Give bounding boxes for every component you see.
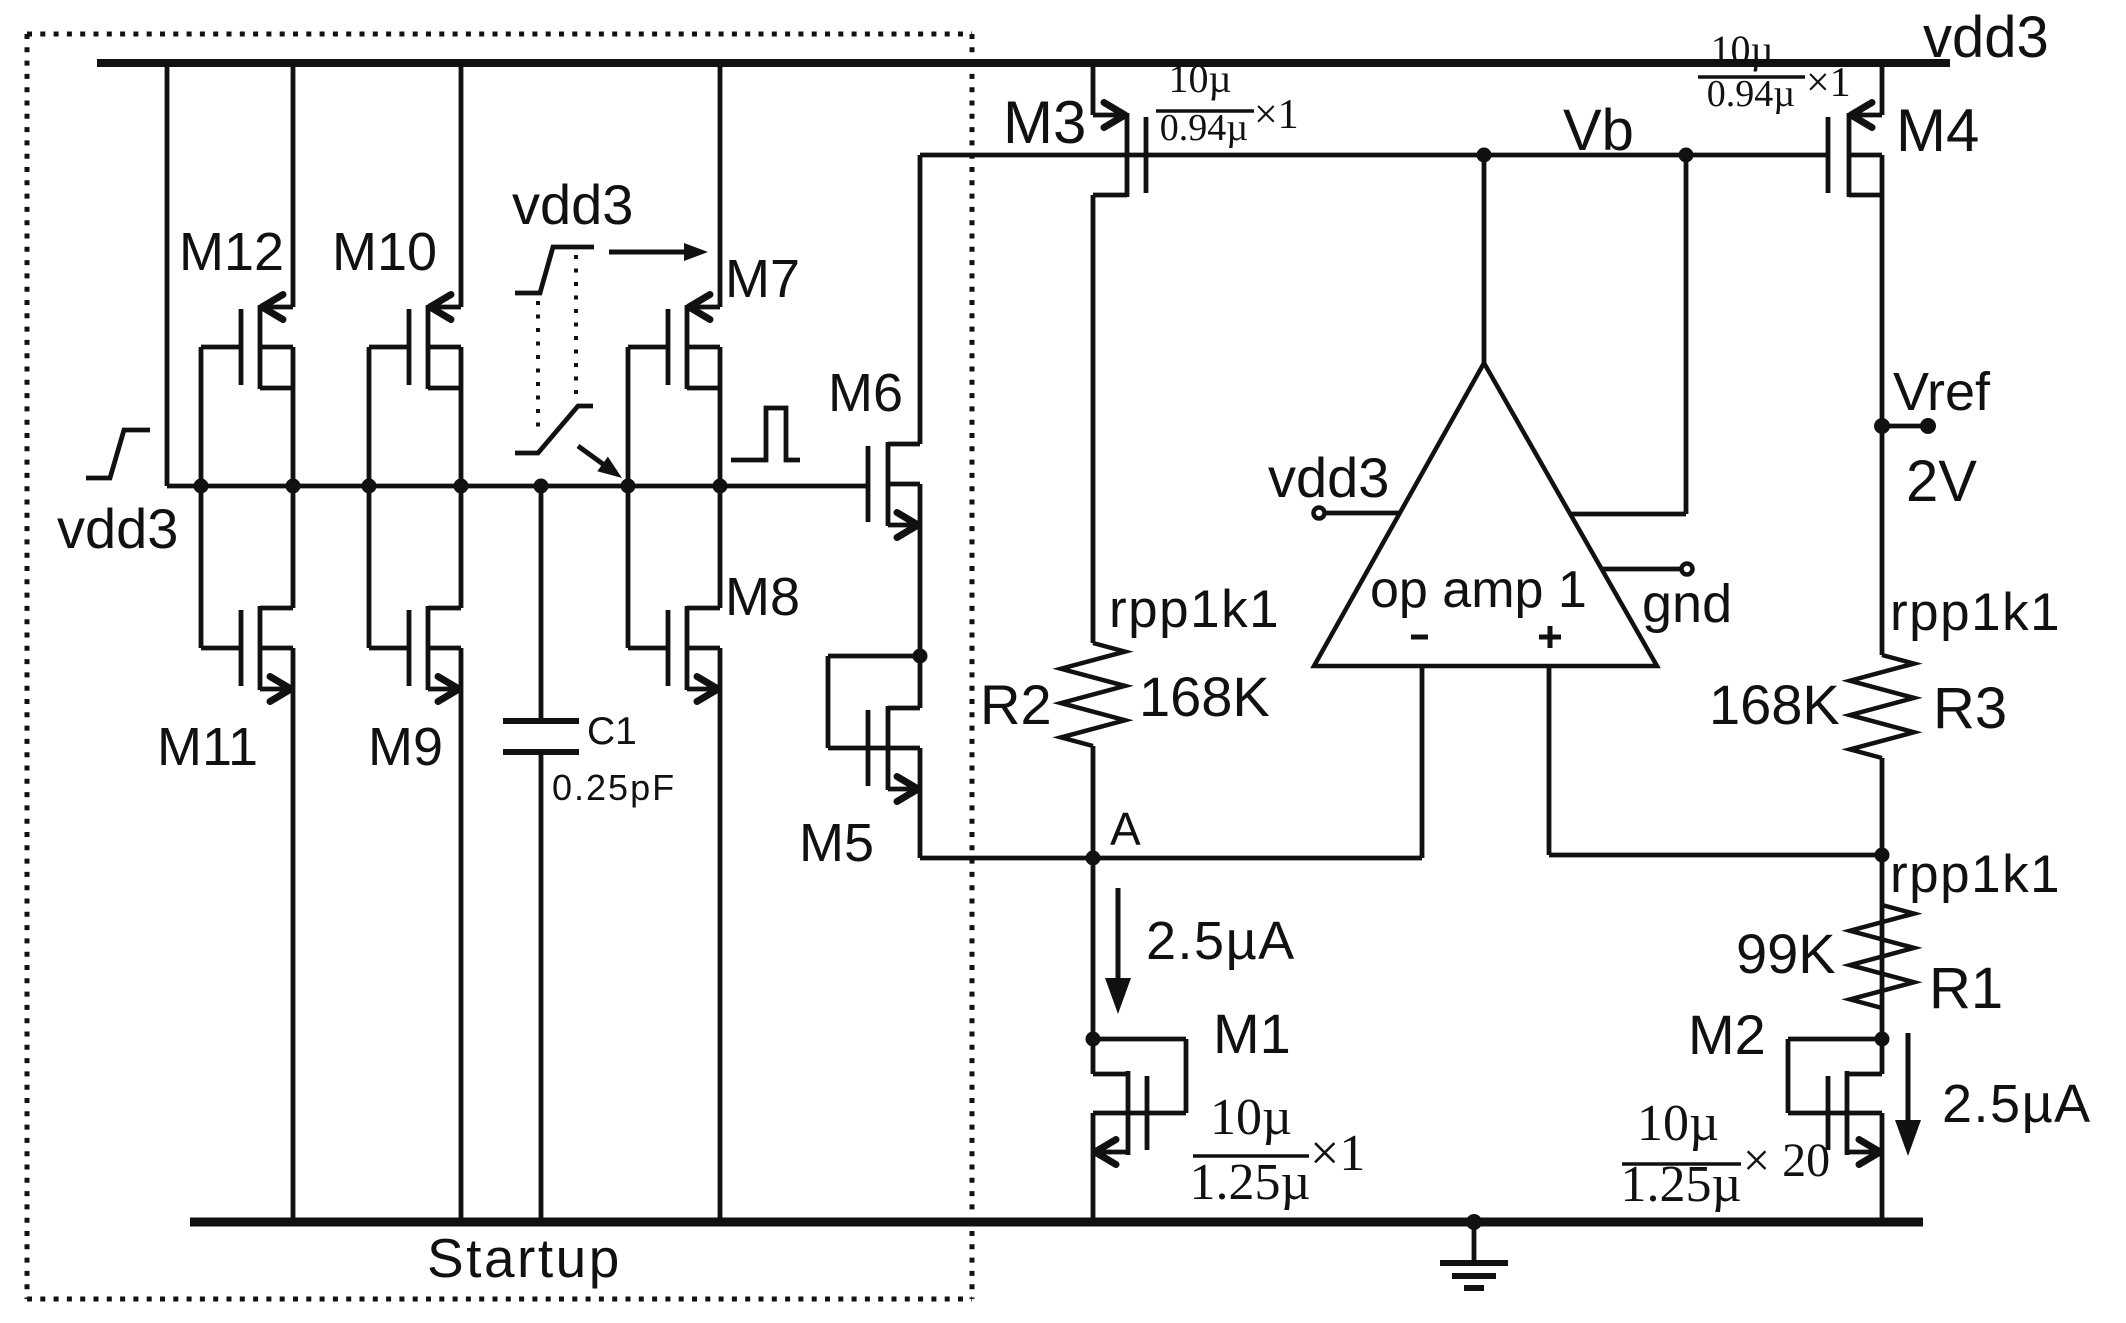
svg-text:R2: R2 bbox=[980, 673, 1052, 736]
svg-text:10µ: 10µ bbox=[1710, 27, 1773, 72]
svg-text:×1: ×1 bbox=[1310, 1125, 1365, 1182]
svg-text:M1: M1 bbox=[1213, 1002, 1291, 1065]
svg-text:1.25µ: 1.25µ bbox=[1190, 1154, 1311, 1211]
svg-text:gnd: gnd bbox=[1642, 574, 1732, 634]
svg-text:Vref: Vref bbox=[1893, 362, 1991, 422]
svg-text:rpp1k1: rpp1k1 bbox=[1109, 580, 1280, 639]
svg-text:vdd3: vdd3 bbox=[1923, 5, 2049, 70]
svg-text:2.5µA: 2.5µA bbox=[1146, 911, 1296, 971]
svg-text:C1: C1 bbox=[587, 710, 637, 753]
svg-text:vdd3: vdd3 bbox=[1268, 446, 1389, 509]
svg-text:rpp1k1: rpp1k1 bbox=[1890, 583, 2061, 642]
svg-text:M8: M8 bbox=[725, 567, 800, 627]
svg-text:M11: M11 bbox=[157, 717, 258, 777]
svg-text:M7: M7 bbox=[725, 249, 800, 309]
svg-text:99K: 99K bbox=[1736, 922, 1836, 985]
svg-text:M5: M5 bbox=[799, 813, 874, 873]
svg-text:168K: 168K bbox=[1709, 673, 1840, 736]
svg-text:× 20: × 20 bbox=[1743, 1134, 1830, 1187]
svg-text:M3: M3 bbox=[1003, 89, 1086, 156]
svg-text:10µ: 10µ bbox=[1168, 56, 1231, 101]
svg-text:M2: M2 bbox=[1688, 1003, 1766, 1066]
svg-text:M4: M4 bbox=[1896, 97, 1979, 164]
svg-text:2.5µA: 2.5µA bbox=[1942, 1074, 2092, 1134]
svg-text:10µ: 10µ bbox=[1210, 1089, 1292, 1146]
svg-text:0.25pF: 0.25pF bbox=[552, 767, 676, 808]
svg-text:×1: ×1 bbox=[1254, 92, 1299, 138]
svg-text:2V: 2V bbox=[1906, 449, 1977, 514]
svg-text:Vb: Vb bbox=[1563, 98, 1634, 163]
svg-text:R1: R1 bbox=[1929, 956, 2003, 1021]
svg-text:M10: M10 bbox=[332, 222, 437, 282]
svg-text:op amp 1: op amp 1 bbox=[1370, 561, 1587, 619]
svg-text:R3: R3 bbox=[1933, 676, 2007, 741]
svg-text:A: A bbox=[1110, 803, 1141, 855]
svg-text:vdd3: vdd3 bbox=[57, 497, 178, 560]
svg-text:Startup: Startup bbox=[427, 1227, 622, 1289]
svg-text:M6: M6 bbox=[828, 363, 903, 423]
svg-text:0.94µ: 0.94µ bbox=[1707, 73, 1795, 115]
svg-text:M9: M9 bbox=[368, 717, 443, 777]
svg-text:M12: M12 bbox=[179, 222, 284, 282]
svg-text:10µ: 10µ bbox=[1637, 1095, 1719, 1152]
svg-text:×1: ×1 bbox=[1806, 60, 1851, 106]
svg-text:0.94µ: 0.94µ bbox=[1160, 107, 1248, 149]
svg-text:168K: 168K bbox=[1139, 665, 1270, 728]
svg-text:1.25µ: 1.25µ bbox=[1621, 1156, 1742, 1213]
svg-text:rpp1k1: rpp1k1 bbox=[1890, 845, 2061, 904]
svg-text:vdd3: vdd3 bbox=[512, 173, 633, 236]
